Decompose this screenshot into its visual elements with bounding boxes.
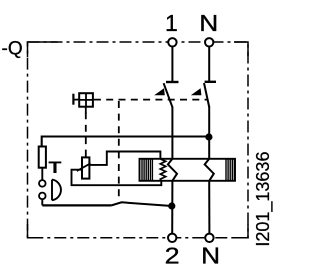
CT left winding hatch (142, 159, 152, 181)
CT right winding hatch (226, 159, 234, 181)
mechanism stem (solid) (85, 107, 87, 114)
moving contact blade pole N (204, 83, 209, 107)
junction dot on N pole (205, 133, 212, 140)
pole 1 conductor kink through CT (168, 159, 177, 181)
svg-text:N: N (201, 243, 220, 269)
wire pole1 terminal 1 down to contact (171, 47, 173, 81)
CT secondary winding zigzag (160, 159, 165, 181)
fixed contact tick pole 1 (166, 81, 179, 83)
svg-text:1: 1 (165, 10, 178, 36)
push-button actuator (52, 180, 61, 201)
svg-text:T: T (48, 158, 62, 177)
wire pole1 CT to terminal 2 (171, 181, 173, 234)
svg-text:2: 2 (165, 243, 180, 269)
test resistor T (39, 147, 46, 168)
test contact circle lower (39, 193, 46, 200)
terminal circle N top (205, 38, 213, 46)
mechanism left lead (73, 99, 79, 101)
wire pole1 blade to CT (171, 107, 173, 160)
svg-text:N: N (199, 10, 218, 36)
linkage branch down to trip coil (dashed) (85, 113, 87, 151)
terminal circle 2 bottom (168, 234, 176, 242)
coil right lead to CT secondary top (89, 152, 160, 165)
blade arrow pole N (191, 88, 202, 95)
wire contact down to test line (41, 199, 43, 205)
wire resistor to contact (41, 168, 43, 180)
stem solid lead into coil (85, 150, 87, 158)
wire poleN CT to bottom terminal N (208, 181, 210, 234)
coil left lead loop to CT secondary bottom (72, 170, 162, 186)
trip coil (rect with slash) (77, 157, 91, 178)
wire poleN blade to CT (208, 106, 210, 159)
test switch blade (111, 202, 172, 206)
wire pole N terminal down to contact (208, 47, 210, 81)
junction dot on pole 1 (168, 202, 175, 209)
current transformer core (140, 159, 236, 181)
pole N conductor kink through CT (205, 159, 214, 181)
blade arrow pole 1 (154, 88, 165, 95)
test branch top rail (42, 137, 209, 147)
test circuit bottom line (42, 204, 111, 206)
mechanism symbol (windowed square) (79, 93, 93, 107)
terminal circle 1 top (168, 38, 176, 46)
test contact circle upper (39, 180, 46, 187)
manual actuator bar (72, 94, 74, 105)
linkage branch down to test contact (dashed) (118, 101, 120, 199)
fixed contact tick pole N (205, 81, 216, 83)
terminal circle N bottom (205, 234, 213, 242)
svg-text:I201_13636: I201_13636 (253, 152, 274, 247)
device boundary frame (dash-dot) (28, 42, 249, 238)
svg-text:-Q: -Q (2, 39, 23, 60)
mechanism linkage (horizontal dashed) (94, 99, 207, 101)
moving contact blade pole 1 (164, 83, 173, 107)
